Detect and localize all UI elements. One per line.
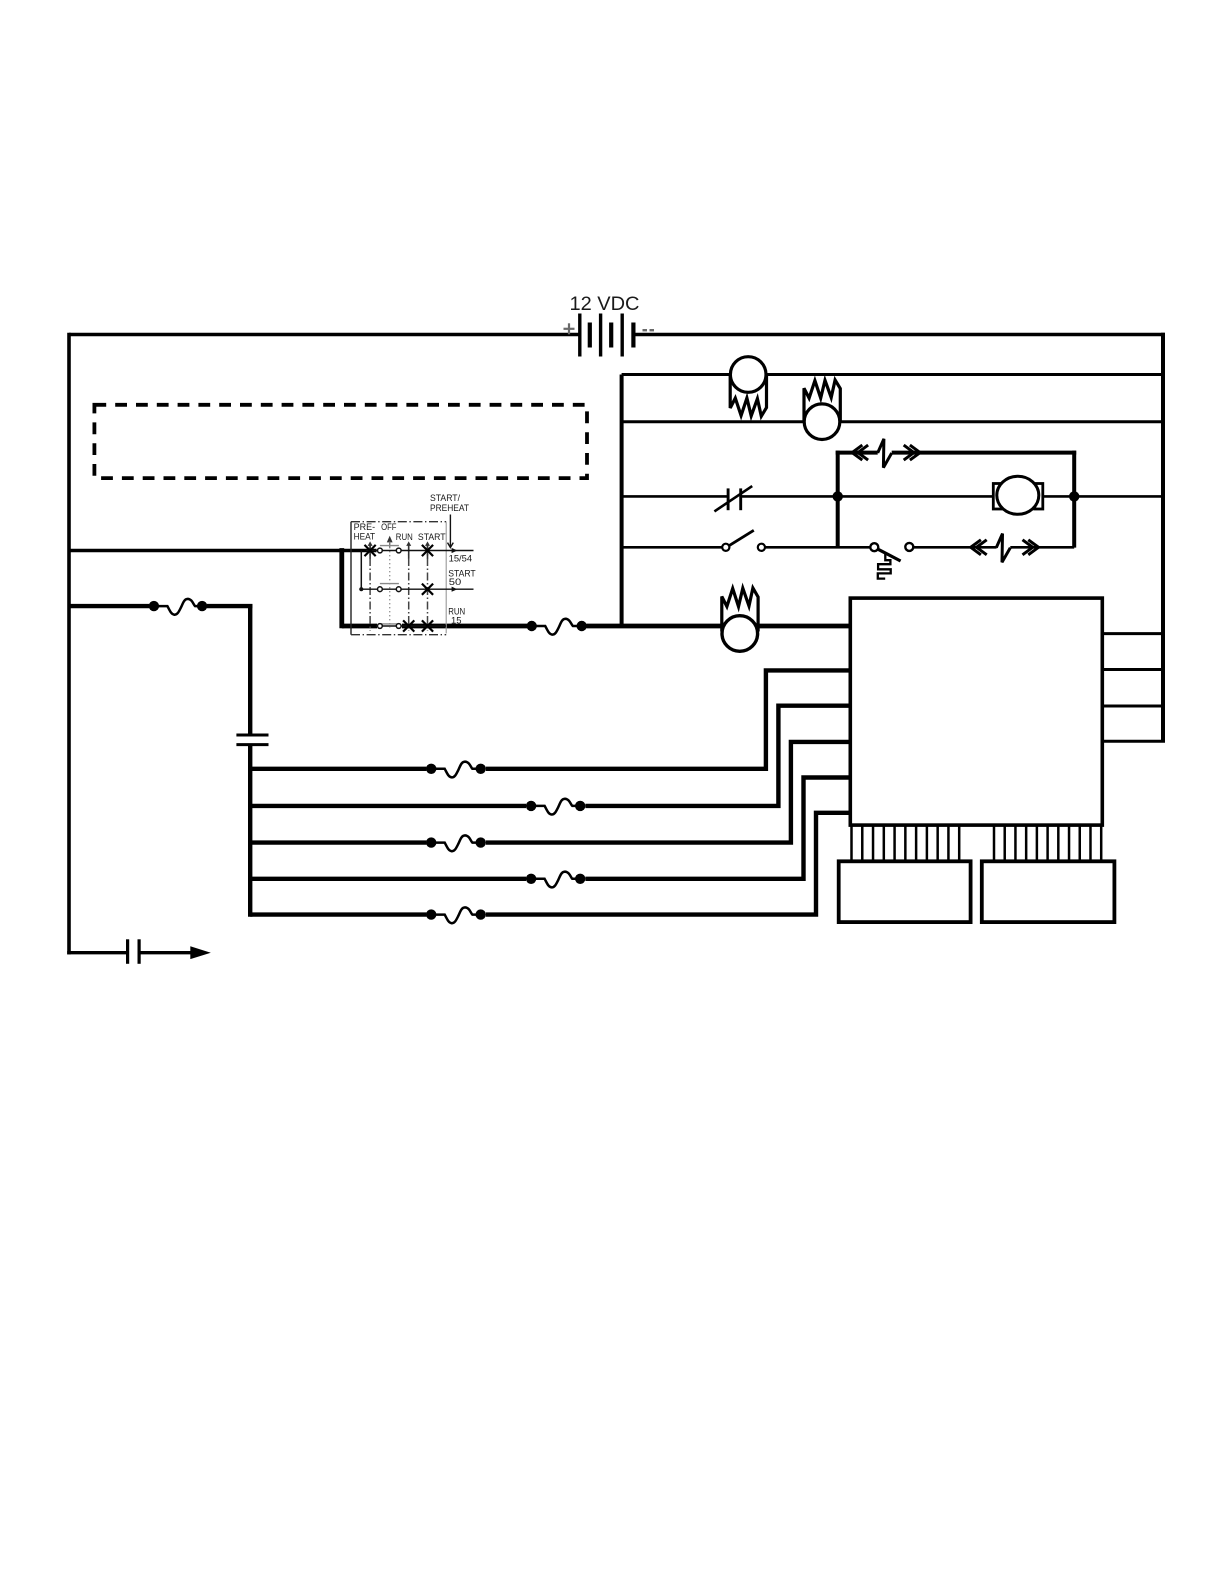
wire to ground arrow	[139, 951, 193, 954]
switch S2 blade open	[722, 530, 765, 551]
lamp L2 glow indicator	[804, 380, 840, 440]
ignition row RUN 15	[376, 625, 446, 627]
connector J2	[982, 861, 1115, 922]
ignition column OFF	[389, 543, 391, 628]
connector pins group 1	[852, 825, 960, 861]
wire module stub right 4	[1102, 740, 1165, 743]
ignition column START	[427, 544, 429, 632]
wire branch B2 riser	[585, 706, 850, 806]
wire accessory riser upper	[248, 604, 252, 735]
contact NC switch S1	[714, 486, 752, 511]
wire ladder branch 3	[622, 495, 727, 498]
circuit breaker CB2	[971, 534, 1039, 563]
battery B1 12 VDC	[580, 314, 634, 357]
ignition column PRE-HEAT	[369, 544, 371, 632]
ignition link row1-row2	[360, 551, 362, 590]
control module U1	[850, 598, 1102, 825]
wire branch B3 riser	[486, 742, 850, 843]
fuse F1 on RUN wire	[527, 619, 587, 635]
fuse F3 on branch B1	[426, 762, 486, 778]
svg-text:15/54: 15/54	[449, 554, 473, 564]
node junction B	[1069, 491, 1079, 501]
wire branch B2	[250, 804, 526, 808]
lamp L1 glow indicator	[730, 357, 766, 417]
wire module stub right 3	[1102, 705, 1163, 708]
ground arrow	[190, 946, 211, 959]
node junction A	[833, 491, 843, 501]
svg-text:START/: START/	[430, 493, 461, 503]
capacitor C1 in riser	[236, 735, 268, 745]
ignition row 15/54	[366, 550, 474, 552]
wire bypass loop	[836, 451, 1076, 548]
dashed harness box	[94, 405, 587, 478]
connector pins group 2	[994, 825, 1101, 861]
fuse F4 on branch B2	[526, 799, 586, 815]
wire top bus left segment	[69, 333, 580, 336]
capacitor C2 ground	[128, 939, 140, 964]
svg-text:OFF: OFF	[381, 522, 397, 532]
wire ladder left vertical	[620, 375, 624, 627]
svg-text:START: START	[418, 532, 446, 542]
fuse F7 on branch B5	[426, 907, 486, 923]
wire left vertical bus	[67, 333, 71, 955]
wire accessory feed with fuse	[69, 604, 149, 608]
svg-text:PRE-: PRE-	[354, 522, 376, 532]
battery plus label	[564, 323, 575, 334]
svg-text:12 VDC: 12 VDC	[570, 294, 640, 315]
lamp L3 glow indicator on RUN wire	[722, 588, 758, 651]
wire ladder branch 1	[622, 373, 1163, 376]
wire right vertical bus	[1161, 333, 1165, 741]
circuit breaker CB1	[852, 439, 920, 468]
ignition outline right edge	[445, 522, 447, 633]
wire feed to ignition switch row 15/54	[69, 549, 377, 553]
ignition column RUN	[408, 544, 410, 632]
connector J1	[839, 861, 971, 922]
wire RUN 15 output left segment	[342, 624, 377, 629]
ignition switch SW1	[351, 493, 476, 635]
battery minus label	[643, 329, 655, 331]
svg-text:PREHEAT: PREHEAT	[430, 503, 470, 513]
fuse F5 on branch B3	[426, 835, 486, 851]
wire RUN 15 output mid segment	[402, 624, 527, 629]
wire top bus right segment	[633, 333, 1164, 336]
wire ground run bottom	[67, 951, 127, 954]
wire branch B4 riser	[585, 778, 850, 879]
switch S3 thermal	[870, 543, 913, 579]
motor M1	[993, 476, 1043, 514]
ignition outline bottom edge	[351, 634, 446, 636]
wire accessory riser lower	[248, 745, 252, 917]
wire ladder branch 2	[622, 420, 1163, 423]
fuse F2 on accessory feed	[149, 599, 208, 615]
wire branch B5 riser	[486, 813, 850, 915]
wire branch B1 riser	[486, 670, 850, 768]
wire ignition feed drop	[339, 548, 344, 628]
svg-text:RUN: RUN	[396, 532, 413, 542]
ignition leader START/PREHEAT	[449, 515, 451, 548]
wire branch B1	[250, 767, 426, 771]
wire RUN 15 output right segment	[587, 624, 851, 629]
ignition row START 50	[361, 588, 473, 590]
ignition outline left edge	[350, 522, 352, 635]
ignition outline top edge	[351, 521, 446, 523]
svg-text:HEAT: HEAT	[354, 531, 376, 541]
wire branch B3	[250, 840, 426, 844]
wire module stub right 2	[1102, 668, 1163, 671]
wire module stub right 1	[1102, 632, 1163, 635]
wire branch B4	[250, 877, 526, 881]
wire ladder branch 4	[622, 546, 723, 549]
wire branch B5	[250, 912, 426, 916]
fuse F6 on branch B4	[526, 872, 586, 888]
svg-text:15: 15	[451, 615, 462, 625]
svg-text:50: 50	[449, 577, 462, 587]
